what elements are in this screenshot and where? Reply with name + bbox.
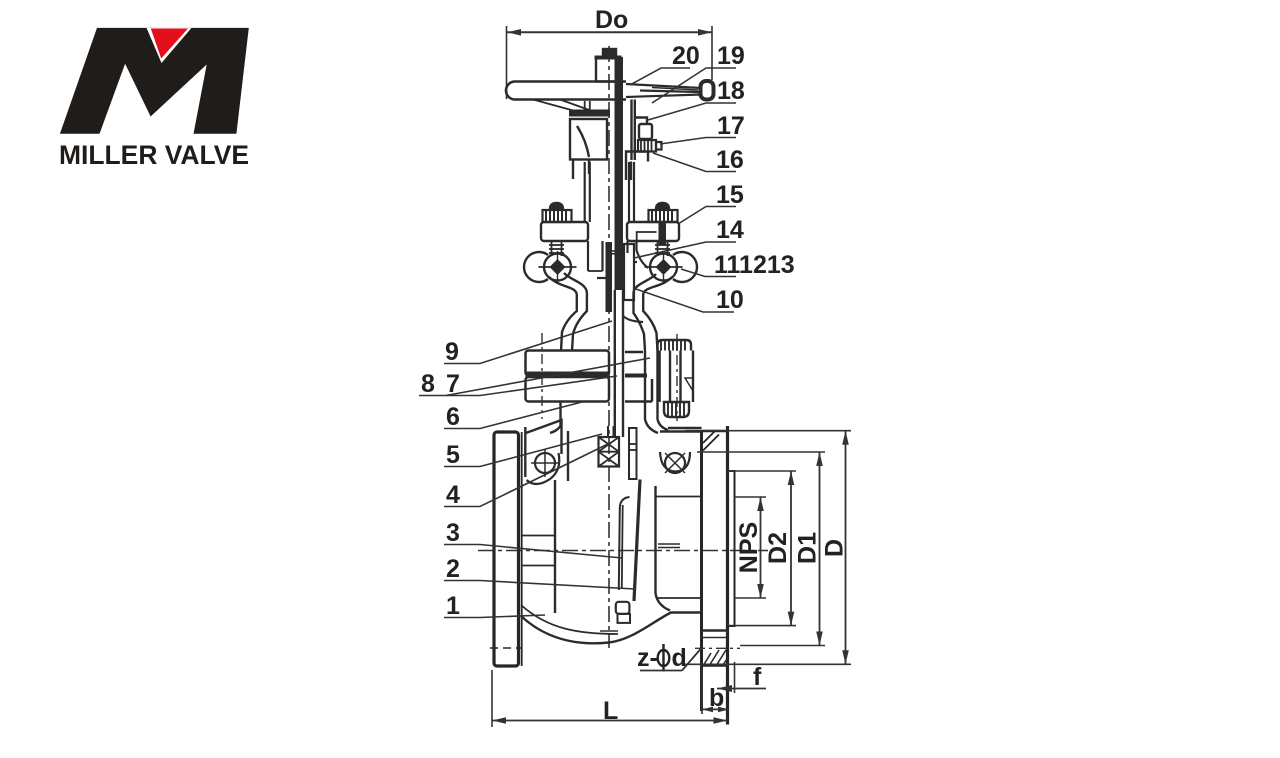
label 19 bbox=[652, 42, 745, 103]
yoke leg left bbox=[549, 273, 587, 351]
svg-text:L: L bbox=[603, 697, 618, 725]
centerline vertical bbox=[600, 46, 618, 648]
right bore lines bbox=[656, 497, 702, 599]
right flange bbox=[702, 426, 735, 725]
left hub bore lines bbox=[522, 536, 555, 566]
label 11 12 13 bbox=[681, 251, 795, 279]
handwheel spoke bbox=[626, 84, 701, 97]
label 5 bbox=[444, 434, 602, 469]
label 14 bbox=[634, 216, 744, 258]
dimension D2 bbox=[728, 471, 797, 626]
gland bolt 17 bbox=[638, 140, 662, 152]
body bottom curve bbox=[521, 605, 702, 643]
yoke leg right bbox=[634, 274, 673, 433]
dimension f bbox=[717, 662, 766, 693]
svg-text:9: 9 bbox=[445, 338, 459, 366]
svg-text:18: 18 bbox=[717, 77, 745, 105]
right flange bolt hole z-phi-d bbox=[702, 631, 728, 667]
backseat bushing 10 bbox=[597, 244, 637, 300]
gland flange right bbox=[627, 222, 679, 245]
svg-text:f: f bbox=[753, 663, 762, 691]
svg-text:111213: 111213 bbox=[714, 251, 795, 279]
gland flange left bbox=[541, 222, 588, 241]
body wall right bbox=[656, 486, 671, 611]
eyebolt stud left bbox=[549, 241, 564, 256]
svg-text:14: 14 bbox=[716, 216, 744, 244]
dimension D1 bbox=[697, 452, 825, 646]
dimension Do bbox=[507, 6, 713, 99]
body top left hub bbox=[525, 420, 569, 613]
label 3 bbox=[444, 519, 622, 558]
svg-text:6: 6 bbox=[446, 403, 460, 431]
bonnet flange bbox=[526, 351, 653, 402]
handwheel hub skirt bbox=[533, 100, 592, 112]
svg-text:z-: z- bbox=[637, 644, 658, 672]
dimension NPS bbox=[734, 497, 766, 598]
bolt hole centerline bbox=[695, 647, 740, 649]
label 18 bbox=[648, 77, 745, 120]
label 6 bbox=[444, 402, 582, 431]
label 1 bbox=[444, 592, 545, 620]
stem bbox=[615, 57, 624, 437]
svg-text:3: 3 bbox=[446, 519, 460, 547]
gland eyebolt left 11/12 bbox=[543, 203, 572, 223]
svg-text:1: 1 bbox=[446, 592, 460, 620]
label 15 bbox=[678, 181, 744, 224]
svg-text:15: 15 bbox=[716, 181, 744, 209]
svg-text:D2: D2 bbox=[764, 532, 792, 564]
dimension z-phi-d bbox=[637, 644, 701, 672]
dimension L bbox=[492, 670, 728, 727]
label 2 bbox=[444, 555, 635, 589]
gland bracket 18 bbox=[632, 100, 653, 161]
svg-text:5: 5 bbox=[446, 441, 460, 469]
svg-text:19: 19 bbox=[717, 42, 745, 70]
yoke bushing hat bbox=[569, 110, 610, 117]
centerline horizontal bbox=[478, 550, 768, 552]
label 8 bbox=[419, 358, 650, 398]
left flange bbox=[490, 432, 522, 666]
label 9 bbox=[444, 321, 612, 366]
label 16 bbox=[653, 146, 744, 174]
label 7 bbox=[446, 370, 617, 398]
bonnet bolt 14/15 right bbox=[658, 340, 694, 417]
dimension D bbox=[683, 431, 851, 665]
svg-text:7: 7 bbox=[446, 370, 460, 398]
dimension b bbox=[702, 666, 729, 714]
flange bolt hole right bbox=[660, 452, 690, 473]
bonnet bolt centerline bbox=[541, 333, 543, 419]
stuffing box bbox=[570, 119, 607, 179]
svg-text:D1: D1 bbox=[794, 532, 822, 564]
flange bolt hole left bbox=[527, 449, 560, 484]
svg-text:17: 17 bbox=[717, 112, 745, 140]
eyebolt pivot left bbox=[524, 251, 576, 283]
bonnet neck bbox=[550, 402, 561, 434]
handwheel rim bbox=[701, 81, 714, 100]
right flange top hub bbox=[660, 428, 702, 432]
backseat flare bbox=[623, 316, 643, 322]
svg-text:NPS: NPS bbox=[735, 522, 763, 573]
logo M bbox=[60, 28, 249, 134]
stem nut 20 bbox=[595, 49, 622, 82]
label 17 bbox=[660, 112, 745, 144]
bonnet gasket 7 bbox=[526, 372, 648, 378]
packing slab bbox=[606, 242, 622, 312]
stem tee hatch bbox=[599, 426, 637, 479]
svg-text:20: 20 bbox=[672, 42, 700, 70]
eyebolt pivot right 111213 bbox=[645, 251, 698, 283]
logo red triangle bbox=[147, 28, 192, 63]
svg-text:2: 2 bbox=[446, 555, 460, 583]
svg-text:8: 8 bbox=[421, 370, 435, 398]
svg-text:D: D bbox=[821, 539, 849, 557]
handwheel bbox=[506, 82, 626, 100]
label 4 bbox=[444, 442, 612, 509]
gland plate 16 bbox=[626, 152, 648, 181]
yoke tube walls bbox=[585, 162, 648, 271]
svg-text:16: 16 bbox=[716, 146, 744, 174]
gate wedge 3 bbox=[616, 480, 640, 623]
svg-text:10: 10 bbox=[716, 286, 744, 314]
label 20 bbox=[630, 42, 700, 85]
eyebolt stud right bbox=[655, 241, 670, 256]
bonnet bolt centerline right bbox=[676, 334, 678, 421]
svg-text:4: 4 bbox=[446, 481, 460, 509]
svg-text:Do: Do bbox=[595, 6, 628, 34]
label 10 bbox=[633, 286, 744, 314]
svg-text:MILLER VALVE: MILLER VALVE bbox=[59, 140, 249, 170]
gland bolt right 15 bbox=[649, 203, 678, 223]
